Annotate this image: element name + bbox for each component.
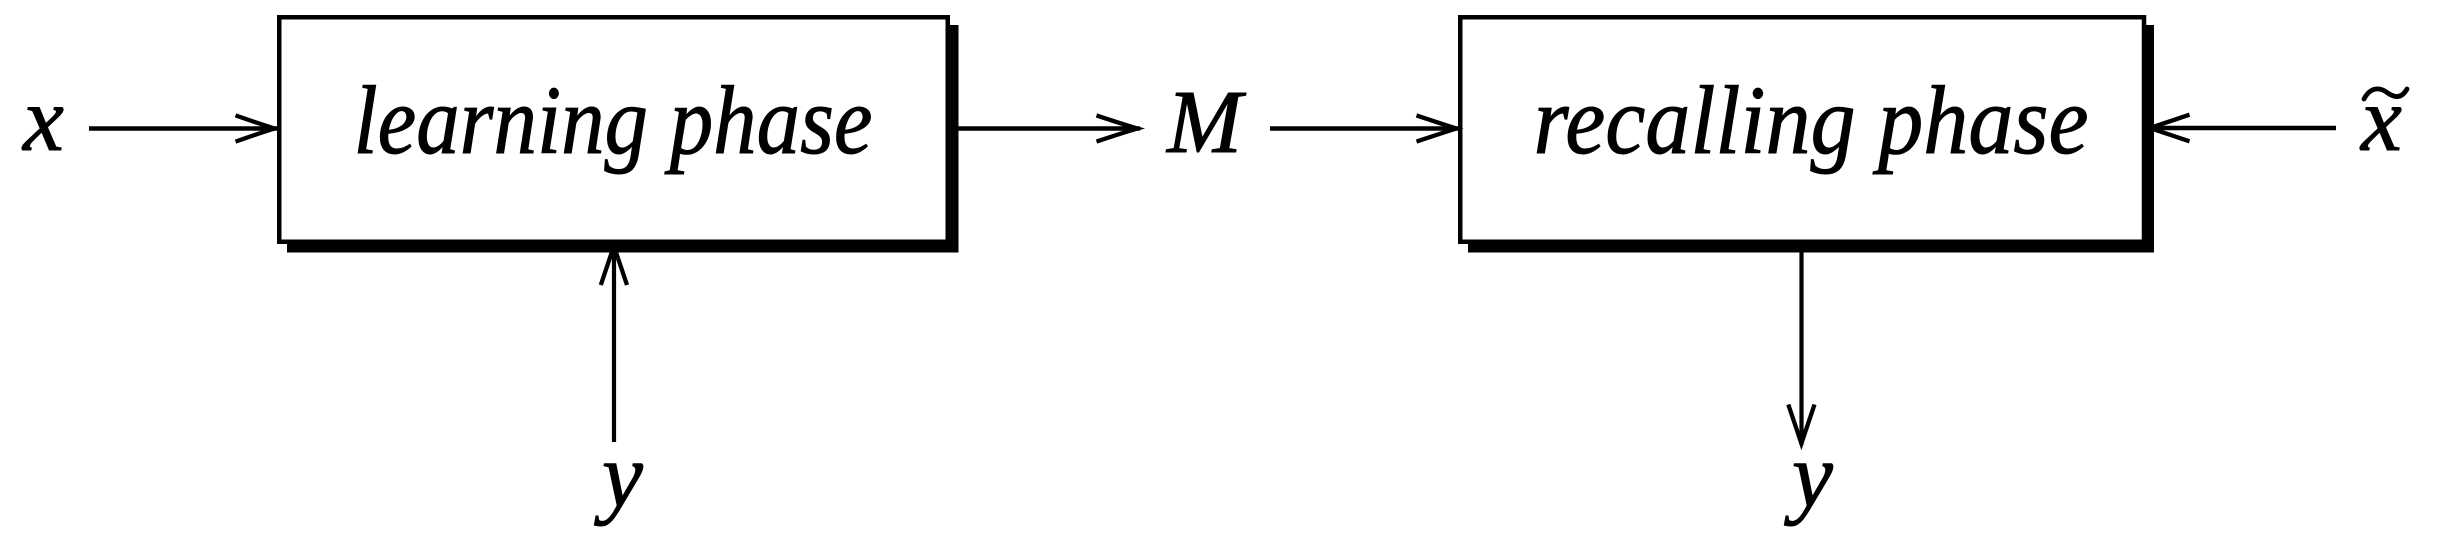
shadow of learning phase box: [287, 25, 959, 253]
svg-text:x: x: [21, 68, 64, 170]
svg-text:learning phase: learning phase: [354, 67, 873, 175]
learning phase box: [279, 17, 948, 242]
tilde accent over x: [2364, 89, 2407, 99]
wire: x-tilde to recalling phase: [2148, 115, 2336, 142]
svg-text:recalling phase: recalling phase: [1534, 67, 2089, 175]
wire: learning phase to M: [950, 115, 1140, 141]
shadow of recalling phase box: [1468, 25, 2154, 253]
wire: x to learning phase: [89, 115, 277, 141]
svg-text:M: M: [1165, 73, 1247, 172]
svg-text:x: x: [2359, 68, 2402, 170]
wire: y up into learning phase: [601, 245, 627, 442]
recalling phase box: [1460, 17, 2144, 242]
svg-text:y: y: [594, 424, 643, 526]
svg-text:y: y: [1784, 424, 1833, 526]
wire: recalling phase down to y: [1788, 248, 1814, 445]
wire: M to recalling phase: [1270, 115, 1458, 141]
